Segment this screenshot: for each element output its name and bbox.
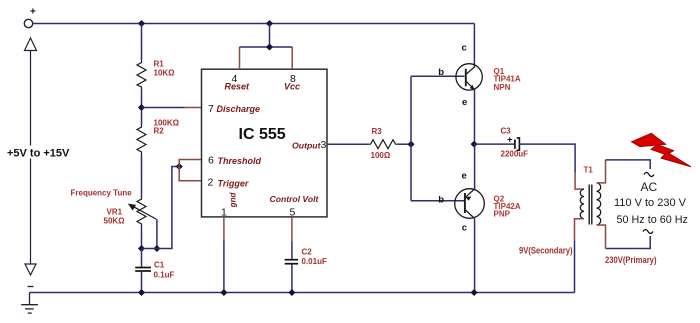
wire Q2 base [411,200,465,202]
minus mark [28,286,34,288]
wire R1 top [141,24,143,61]
svg-text:+: + [507,135,513,146]
svg-text:gnd: gnd [229,192,238,209]
resistor R1 [137,60,175,89]
node bases [407,141,414,148]
wire output pin 3 [327,143,369,145]
svg-text:50KΩ: 50KΩ [104,217,126,226]
svg-text:c: c [462,223,467,234]
transistor Q1 [438,43,521,108]
svg-text:1: 1 [221,207,227,219]
wire pin 5 [291,217,293,259]
pin 4/8 supply bridge [240,24,293,70]
IC 555 box U1 [202,69,328,217]
wire bottom rail [30,292,575,294]
svg-text:Reset: Reset [225,82,251,92]
svg-text:0.01uF: 0.01uF [302,257,327,266]
wire Q2 emitter up [474,144,476,189]
wire top rail [33,23,475,25]
capacitor C1 [135,249,174,293]
svg-text:b: b [438,194,444,205]
wire pin 2 [179,167,201,181]
node pot bottom [138,245,145,252]
svg-text:Frequency Tune: Frequency Tune [71,188,133,197]
positive terminal [24,7,36,28]
label +5V to +15V [6,146,69,159]
lightning bolt [632,133,692,167]
svg-text:b: b [438,67,444,78]
transformer core [589,185,592,225]
wire pin 1 to rail [220,217,227,296]
svg-text:110 V to 230 V: 110 V to 230 V [614,197,687,209]
wire secondary bottom to rail [575,219,585,241]
wire C3 to transformer [520,144,576,172]
transformer T1 primary winding [597,183,601,225]
svg-text:Control Volt: Control Volt [270,194,320,204]
svg-text:VR1: VR1 [107,208,123,217]
svg-text:AC: AC [641,180,658,194]
wire node to trigger riser [142,167,180,249]
wire R2 bottom [141,155,143,198]
wire AC loop bottom [606,236,651,249]
wire base bus [410,76,412,200]
svg-text:C2: C2 [302,248,313,257]
svg-text:7: 7 [208,103,214,115]
wire Q1 collector [473,24,475,68]
wire Q1 emitter down [474,90,476,144]
svg-text:100Ω: 100Ω [371,151,391,160]
potentiometer VR1 [71,188,157,225]
node Q2 collector rail [471,289,478,296]
wire pin 6 [179,160,201,167]
resistor R3 [369,127,399,160]
capacitor C3 [501,127,529,159]
svg-text:3: 3 [321,139,327,151]
battery arrow up [25,38,37,264]
svg-text:e: e [462,171,467,182]
resistor R2 [137,119,180,155]
svg-text:0.1uF: 0.1uF [154,270,175,279]
svg-text:2: 2 [208,177,214,189]
svg-text:Threshold: Threshold [218,156,262,166]
svg-text:Vcc: Vcc [284,82,300,92]
capacitor C2 [285,248,327,297]
svg-text:50 Hz to 60 Hz: 50 Hz to 60 Hz [617,214,688,226]
svg-text:e: e [462,97,467,108]
svg-text:Trigger: Trigger [218,179,249,189]
svg-text:+5V to +15V: +5V to +15V [7,147,70,159]
svg-text:6: 6 [208,155,214,167]
svg-text:R1: R1 [154,60,165,69]
wire AC loop top [606,160,651,169]
svg-text:NPN: NPN [494,83,511,92]
wire Q1 base [411,75,465,77]
wire primary top lead [597,160,606,183]
battery arrow down [25,264,36,275]
svg-text:R2: R2 [154,127,165,136]
svg-text:+: + [30,7,36,18]
svg-text:Output: Output [292,140,322,150]
wire to C3 [474,143,514,145]
svg-text:230V(Primary): 230V(Primary) [605,255,657,265]
svg-text:T1: T1 [584,166,594,175]
node R1/R2 pin7 [138,104,145,111]
transformer T1 secondary winding [580,189,584,219]
node emitters/C3 [471,141,478,148]
svg-text:5: 5 [290,207,296,219]
wire R1 bottom to node [141,89,143,126]
transistor Q2 [438,171,521,234]
AC source label [614,180,688,226]
svg-text:c: c [462,43,467,54]
wire pot bottom [141,226,143,249]
wire to pin 7 [142,107,185,109]
wire R3 to bases node [398,143,411,145]
svg-text:Discharge: Discharge [217,104,261,114]
AC break top tilde [644,173,654,177]
AC break bottom tilde [643,230,653,234]
wire Q2 collector down [474,219,476,293]
node top rail / IC supply [266,20,273,27]
svg-text:R3: R3 [372,127,383,136]
svg-text:9V(Secondary): 9V(Secondary) [519,246,573,256]
svg-text:PNP: PNP [494,210,511,219]
node C1 rail [138,289,145,296]
node wiper [153,245,160,252]
svg-text:2200uF: 2200uF [501,150,529,159]
node top rail / R1 top [138,20,145,27]
svg-text:C1: C1 [154,261,165,270]
wire pot wiper down [156,219,158,248]
ground [21,293,38,314]
svg-text:10KΩ: 10KΩ [154,69,176,78]
node trigger/threshold [176,163,183,170]
svg-text:C3: C3 [501,127,512,136]
wire primary bottom lead [597,225,606,249]
svg-text:IC 555: IC 555 [239,126,286,143]
